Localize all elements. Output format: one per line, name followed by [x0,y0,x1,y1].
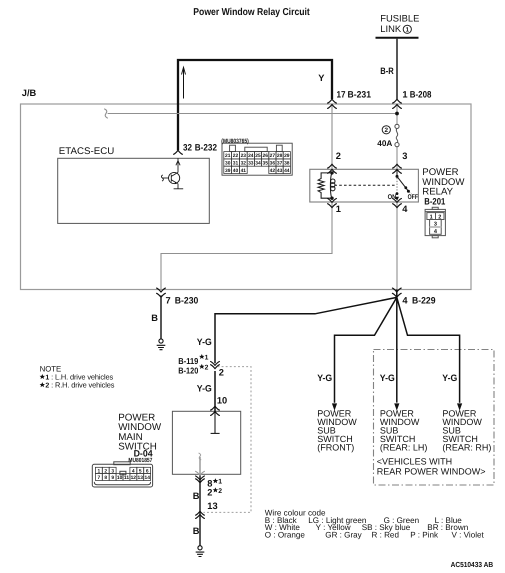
svg-text:FUSIBLE: FUSIBLE [380,12,419,23]
svg-text:30: 30 [225,161,231,167]
svg-text:14: 14 [144,475,150,481]
svg-text:35: 35 [262,161,268,167]
svg-text:(FRONT): (FRONT) [317,443,354,453]
svg-text:2: 2 [219,368,224,378]
svg-text:B: B [193,526,200,536]
svg-text:31: 31 [233,161,239,167]
svg-text:3: 3 [111,468,114,474]
svg-text:41: 41 [241,168,247,174]
svg-text:(REAR: RH): (REAR: RH) [442,443,491,453]
svg-text:29: 29 [284,153,290,159]
svg-text:(REAR: LH): (REAR: LH) [380,443,428,453]
svg-text:B-R: B-R [380,66,394,76]
svg-text:17: 17 [337,89,346,99]
svg-text:8: 8 [104,475,107,481]
svg-text:MU801857: MU801857 [128,457,153,464]
svg-text:24: 24 [248,153,254,159]
svg-text:44: 44 [284,168,290,174]
svg-text:4: 4 [132,468,135,474]
svg-text:<VEHICLES WITH: <VEHICLES WITH [377,457,452,467]
svg-text:2: 2 [205,364,209,371]
svg-text:1: 1 [406,27,410,34]
svg-text:ETACS-ECU: ETACS-ECU [59,146,115,157]
svg-text:J/B: J/B [22,88,37,98]
svg-text:32: 32 [183,142,192,152]
svg-text:2: 2 [385,127,389,134]
svg-text:12: 12 [131,475,137,481]
svg-text:P : Pink: P : Pink [410,531,439,540]
svg-text:OFF: OFF [408,194,418,201]
svg-text:13: 13 [207,501,217,511]
svg-text:Y-G: Y-G [380,373,395,383]
svg-text:Y: Y [318,73,325,83]
svg-text:LINK: LINK [380,23,402,34]
svg-text:34: 34 [255,161,261,167]
svg-text:B: B [193,491,200,501]
svg-text:1: 1 [205,355,209,362]
svg-text:V : Violet: V : Violet [452,531,485,540]
svg-text:25: 25 [255,153,261,159]
svg-text:11: 11 [124,475,129,481]
svg-text:33: 33 [248,161,254,167]
svg-text:42: 42 [270,168,276,174]
svg-text:B-119: B-119 [178,356,198,366]
svg-text:22: 22 [233,153,239,159]
svg-text:B-232: B-232 [195,142,217,152]
svg-text:23: 23 [241,153,247,159]
svg-text:2: 2 [438,214,441,220]
svg-text:B-208: B-208 [410,89,432,99]
svg-text:40A: 40A [377,139,392,148]
svg-text:B-120: B-120 [178,366,198,376]
svg-text:27: 27 [270,153,276,159]
svg-text:Y-G: Y-G [317,373,332,383]
svg-text:2: 2 [207,488,212,498]
svg-text:B-201: B-201 [424,196,445,206]
svg-text:13: 13 [137,475,143,481]
svg-text:3: 3 [434,222,437,228]
svg-text:Y-G: Y-G [197,337,212,347]
svg-text:10: 10 [117,475,123,481]
svg-text:REAR POWER WINDOW>: REAR POWER WINDOW> [377,467,486,477]
svg-text:2: 2 [218,488,222,495]
svg-text:32: 32 [241,161,247,167]
svg-text:1: 1 [430,214,433,220]
svg-text:28: 28 [277,153,283,159]
svg-text:36: 36 [270,161,276,167]
svg-text:5: 5 [139,468,142,474]
svg-text:7: 7 [98,475,101,481]
svg-text:B-231: B-231 [348,89,372,99]
svg-text:Y-G: Y-G [442,373,457,383]
svg-text:B: B [151,313,158,323]
svg-text:7: 7 [166,295,171,305]
svg-text:B-230: B-230 [175,295,199,305]
svg-text:1: 1 [98,468,101,474]
svg-text:1: 1 [218,479,222,486]
svg-text:26: 26 [262,153,268,159]
svg-text:10: 10 [217,396,227,406]
svg-text:4: 4 [402,204,408,214]
svg-text:2: 2 [104,468,107,474]
svg-text:4: 4 [402,295,408,305]
svg-text:2 : R.H. drive vehicles: 2 : R.H. drive vehicles [45,381,114,390]
svg-text:2: 2 [336,151,341,161]
svg-text:1: 1 [336,204,341,214]
svg-text:R : Red: R : Red [372,531,399,540]
svg-text:38: 38 [284,161,290,167]
svg-text:21: 21 [225,153,231,159]
svg-text:B-229: B-229 [412,295,436,305]
svg-text:Power Window Relay Circuit: Power Window Relay Circuit [193,7,310,18]
svg-text:37: 37 [277,161,283,167]
svg-text:6: 6 [146,468,149,474]
svg-text:O : Orange: O : Orange [265,531,306,540]
svg-text:(MU803765): (MU803765) [221,138,249,145]
svg-text:3: 3 [402,151,407,161]
svg-text:43: 43 [277,168,283,174]
svg-text:Y-G: Y-G [197,383,212,393]
svg-text:AC510433 AB: AC510433 AB [451,560,494,569]
svg-text:39: 39 [225,168,231,174]
svg-text:GR : Gray: GR : Gray [325,531,362,540]
svg-text:1: 1 [402,89,407,99]
svg-text:9: 9 [111,475,114,481]
svg-text:ON: ON [388,194,397,201]
svg-text:40: 40 [233,168,239,174]
